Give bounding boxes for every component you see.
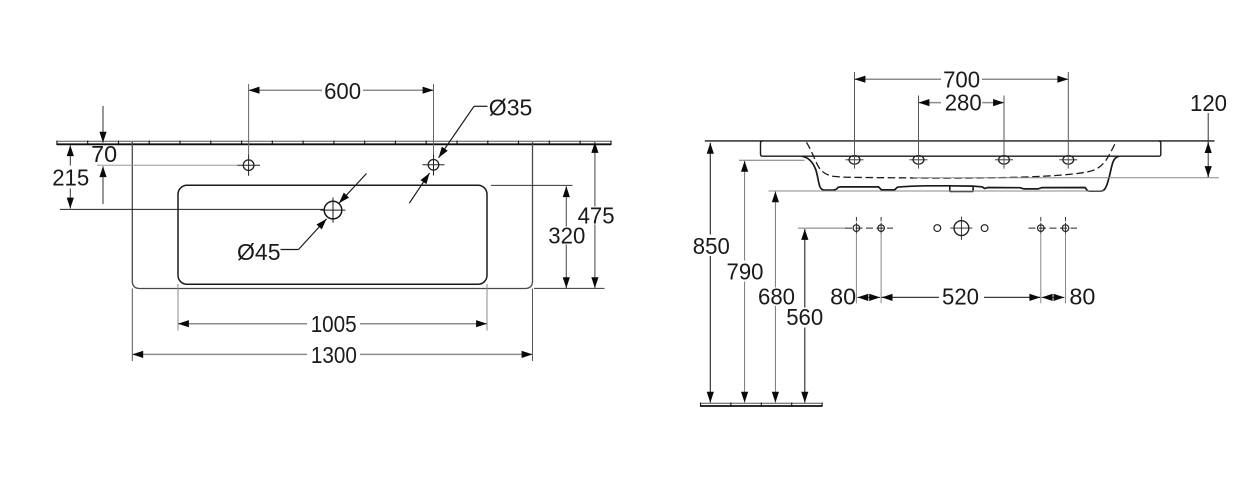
reference line at drain level (215) <box>60 208 324 210</box>
slab hole 1 (700 left) <box>846 156 864 165</box>
dim 320 extension <box>491 184 573 186</box>
svg-text:790: 790 <box>727 259 764 285</box>
mounting hole pair right <box>1029 217 1078 234</box>
washbasin slab profile <box>761 141 1161 156</box>
dim 80 right <box>1042 296 1065 298</box>
svg-text:1300: 1300 <box>311 342 357 368</box>
svg-text:1005: 1005 <box>311 311 357 337</box>
faucet hole right Ø35 <box>423 154 445 175</box>
dim 70 <box>102 106 104 204</box>
drain group center <box>934 217 988 240</box>
dim 680 <box>774 191 776 402</box>
dim 1300 <box>132 353 532 355</box>
svg-text:600: 600 <box>324 78 361 104</box>
ref line 680 <box>769 190 1105 192</box>
drain tab <box>950 186 973 192</box>
svg-text:850: 850 <box>693 233 730 259</box>
slab hole 2 (280 left) <box>910 156 928 165</box>
dim 215 <box>69 145 71 208</box>
dim 1005 extension lines <box>177 284 179 331</box>
ref line 560 <box>798 227 845 229</box>
hole centreline reference (70/215) <box>97 164 238 166</box>
svg-text:700: 700 <box>943 66 980 92</box>
dim 320 <box>565 186 567 288</box>
svg-text:560: 560 <box>786 304 823 330</box>
bottom extension line right <box>534 287 605 289</box>
svg-text:475: 475 <box>578 203 615 229</box>
dim 850 <box>709 143 711 403</box>
dim 120 <box>1207 113 1209 177</box>
svg-text:215: 215 <box>52 165 89 191</box>
dim 1005 <box>178 323 487 325</box>
hidden bowl contour (dashed) <box>807 142 1116 178</box>
dim 790 <box>744 161 746 403</box>
bowl outline (front profile) <box>802 156 1119 191</box>
dim 280 <box>919 102 1005 104</box>
dim 1300 extension lines <box>131 289 133 362</box>
dim 700 <box>855 78 1069 80</box>
svg-text:80: 80 <box>830 283 856 309</box>
leader Ø45 <box>281 174 367 250</box>
ref line 120 bottom <box>913 177 1219 179</box>
basin inner bowl rect <box>178 185 487 284</box>
slab hole 3 (280 right) <box>995 156 1013 165</box>
leader Ø35 <box>409 106 487 203</box>
dim 560 <box>804 229 806 403</box>
right view: top line <box>705 140 1215 142</box>
svg-text:520: 520 <box>942 284 979 310</box>
basin outer outline (plan) <box>132 142 532 289</box>
svg-text:70: 70 <box>91 141 117 167</box>
svg-text:120: 120 <box>1190 90 1227 116</box>
dim 80 left <box>857 296 880 298</box>
svg-text:Ø35: Ø35 <box>489 95 533 121</box>
left view: wall/top edge band <box>57 141 611 145</box>
svg-text:80: 80 <box>1069 284 1095 310</box>
extension lines 80/520/80 <box>856 234 1065 304</box>
dim 520 <box>882 296 1041 298</box>
dim 600 <box>249 89 434 91</box>
ref line 790 <box>739 159 805 161</box>
slab hole 4 (700 right) <box>1059 156 1077 165</box>
drain hole Ø45 <box>321 198 346 223</box>
floor band <box>701 403 823 407</box>
dim 475 <box>594 142 596 288</box>
mounting hole pair left <box>845 217 893 234</box>
faucet hole left <box>238 155 261 176</box>
svg-text:280: 280 <box>945 89 982 115</box>
svg-text:Ø45: Ø45 <box>237 239 281 265</box>
